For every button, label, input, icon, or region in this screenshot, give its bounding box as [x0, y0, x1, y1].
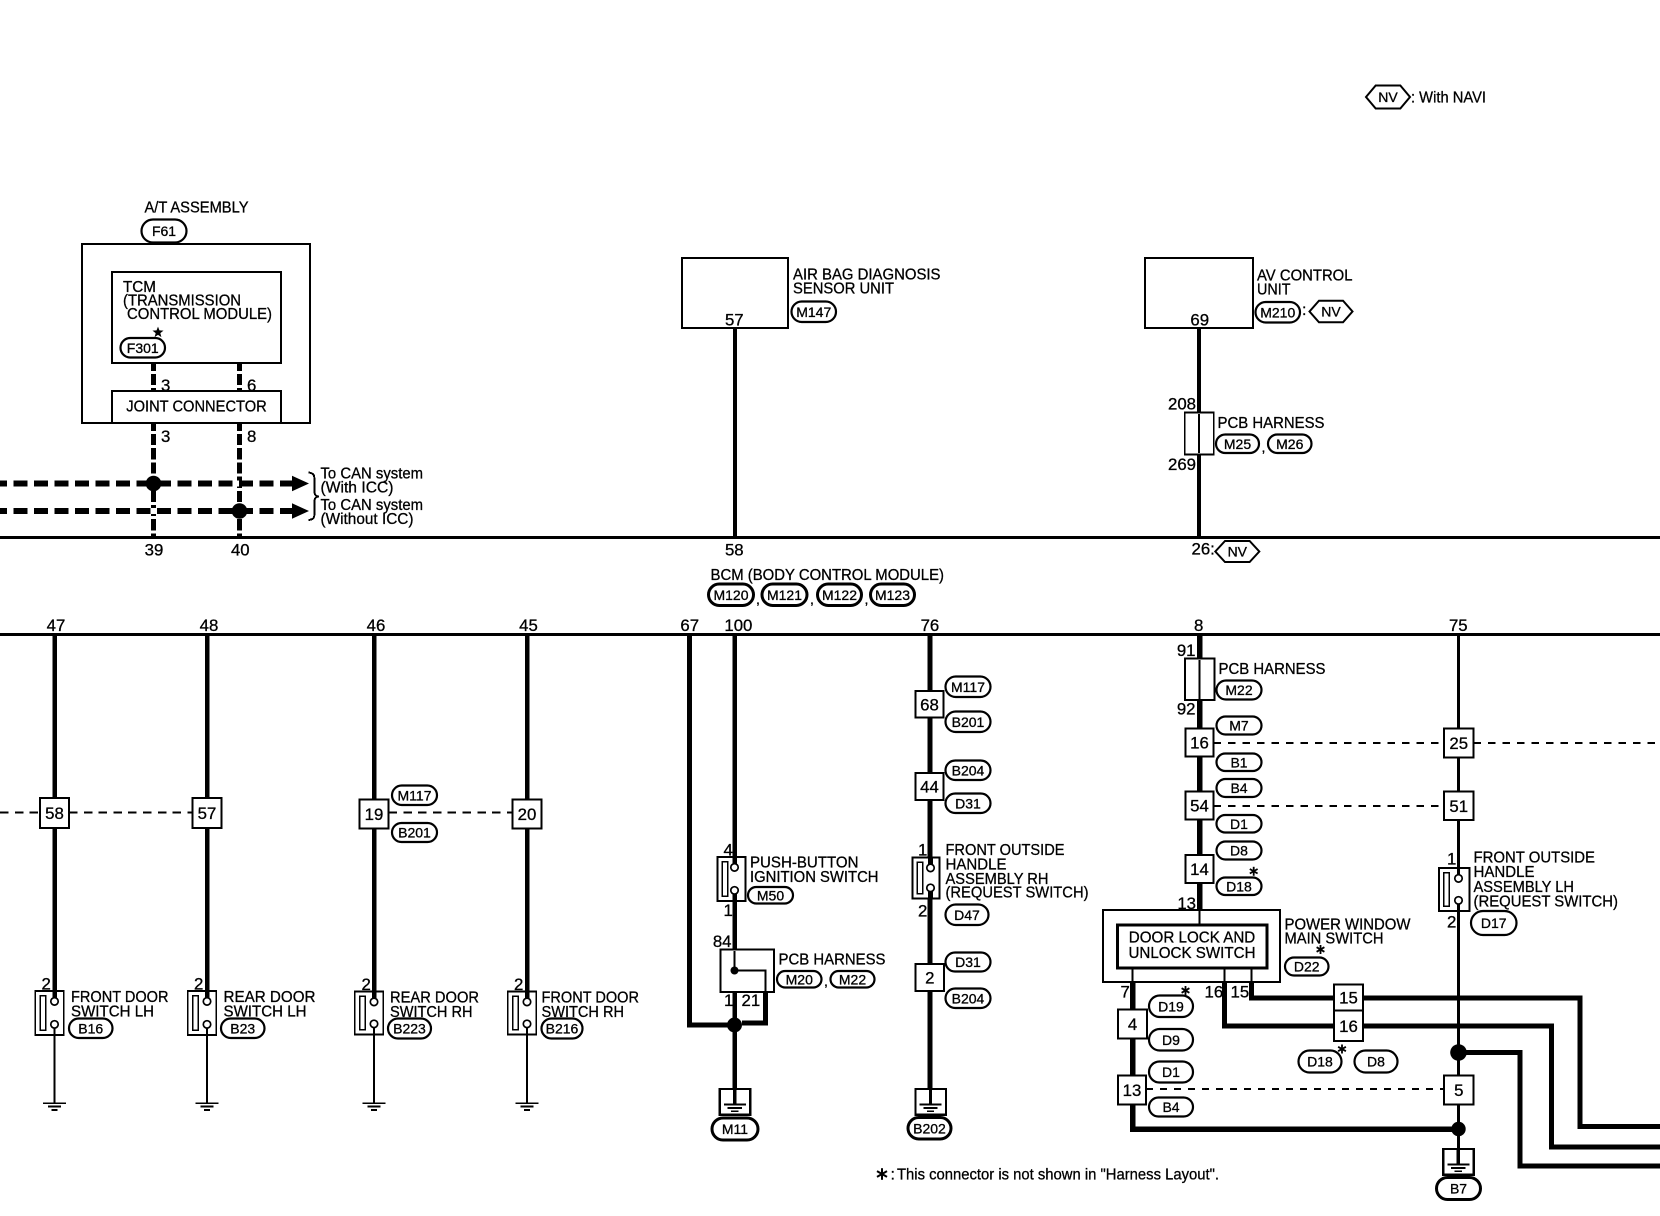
PCB harness joint box M20/M22 [721, 950, 775, 993]
wire switch LH to ground [54, 1035, 56, 1103]
svg-text:B223: B223 [393, 1021, 426, 1037]
svg-text:UNIT: UNIT [1257, 281, 1291, 299]
star mark at D18 lower [1338, 1045, 1346, 1054]
svg-text:51: 51 [1449, 797, 1468, 816]
connector PUSH-BUTTON IGNITION SWITCH [718, 857, 746, 901]
wire request switch LH down [1457, 911, 1460, 1076]
connector FRONT DOOR SWITCH RH [508, 992, 537, 1035]
wire TCM pin 6 to joint connector (CAN) [237, 363, 242, 391]
connector F301 [121, 338, 166, 358]
svg-text:M7: M7 [1229, 718, 1249, 734]
wire box 15 right to edge [1363, 998, 1660, 1126]
svg-text:2: 2 [918, 902, 927, 921]
inline connector box 57 [193, 798, 222, 828]
svg-text:3: 3 [161, 427, 170, 446]
svg-text:CONTROL MODULE): CONTROL MODULE) [127, 305, 272, 323]
svg-text:F61: F61 [152, 223, 176, 239]
connector M117 oval [946, 677, 991, 698]
connector D18 oval lower [1299, 1051, 1342, 1073]
svg-text:D22: D22 [1294, 959, 1320, 975]
svg-text:SENSOR UNIT: SENSOR UNIT [793, 280, 894, 298]
wire inside door lock box [1199, 910, 1201, 925]
wire switch to ground [373, 1035, 375, 1104]
wire CAN bus horizontal (With ICC) [0, 480, 293, 486]
svg-text:PCB HARNESS: PCB HARNESS [1219, 660, 1326, 678]
svg-text:2: 2 [925, 969, 934, 988]
inline connector box 2 [916, 964, 945, 991]
ground M11 boxed [720, 1089, 751, 1115]
inline connector box 58 [40, 798, 69, 828]
svg-text:B204: B204 [952, 762, 985, 778]
junction dot ground node [727, 1018, 742, 1033]
svg-text:75: 75 [1449, 616, 1468, 635]
inline connector box 25 [1444, 729, 1474, 758]
inline connector box 16 [1186, 729, 1214, 757]
svg-text:16: 16 [1205, 983, 1224, 1002]
wire door lock pin 16 to box 16 [1225, 982, 1335, 1026]
inline connector box 5 [1444, 1076, 1474, 1105]
inline connector box 20 [513, 800, 542, 829]
wire PCB pin 1 to junction [732, 992, 737, 1025]
svg-text:M121: M121 [767, 587, 802, 603]
svg-text:This connector is not shown in: This connector is not shown in "Harness … [897, 1166, 1219, 1184]
svg-text:B4: B4 [1230, 780, 1247, 796]
svg-text:76: 76 [921, 616, 940, 635]
A/T assembly outer box [82, 244, 310, 423]
connector D1 oval lower [1149, 1062, 1193, 1083]
svg-text:M20: M20 [786, 971, 813, 987]
svg-text:2: 2 [362, 975, 371, 994]
svg-text:57: 57 [198, 804, 217, 823]
inline connector box 68 [916, 691, 944, 718]
svg-text:PCB HARNESS: PCB HARNESS [1218, 414, 1325, 432]
wire BCM 75 down [1457, 635, 1460, 729]
wire BCM 76 down [928, 635, 933, 691]
svg-text:26:: 26: [1192, 540, 1215, 559]
svg-text:MAIN SWITCH: MAIN SWITCH [1285, 930, 1384, 948]
inline connector box 4 [1118, 1010, 1147, 1039]
PCB harness inline connector M22 [1185, 659, 1215, 701]
svg-text:D18: D18 [1307, 1054, 1333, 1070]
DOOR LOCK AND UNLOCK SWITCH inner box [1118, 925, 1268, 968]
wire switch to ground [526, 1035, 528, 1104]
wire box 2 to ground B202 [928, 991, 933, 1089]
svg-text:M123: M123 [875, 587, 910, 603]
wire CAN-L vertical to BCM pin 39 [151, 423, 156, 538]
legend NV symbol: With NAVI [1366, 86, 1410, 109]
wire switch to ground [206, 1035, 208, 1103]
ground front door switch LH [43, 1102, 66, 1104]
arrowhead CAN With ICC [292, 476, 309, 491]
BCM bottom edge line [0, 633, 1660, 636]
svg-text:M117: M117 [951, 679, 985, 695]
svg-text:D8: D8 [1367, 1054, 1385, 1070]
svg-text:(REQUEST SWITCH): (REQUEST SWITCH) [1474, 893, 1619, 911]
svg-text:15: 15 [1231, 983, 1250, 1002]
svg-text:48: 48 [200, 616, 219, 635]
connector B216 [542, 1019, 583, 1039]
svg-text:B201: B201 [398, 825, 431, 841]
svg-text:M50: M50 [757, 887, 784, 903]
svg-text:39: 39 [145, 541, 164, 560]
connector B201 oval (row) [392, 823, 437, 842]
junction dot CAN pin40 [232, 503, 248, 519]
wire 54 to 14 [1197, 820, 1203, 856]
svg-text:IGNITION SWITCH: IGNITION SWITCH [750, 868, 879, 886]
inline connector box 16 (pair) [1334, 1011, 1363, 1042]
inline connector box 13 [1118, 1076, 1146, 1105]
NV hexagon at pin 26 [1215, 541, 1259, 562]
svg-text:2: 2 [514, 975, 523, 994]
label To CAN system (Without ICC) [321, 496, 424, 528]
svg-text:47: 47 [47, 616, 66, 635]
svg-text:19: 19 [365, 805, 384, 824]
wire BCM 48 to rear door switch LH [205, 635, 210, 991]
svg-text:7: 7 [1121, 983, 1130, 1002]
wire PCB pin 21 to junction [742, 992, 766, 1023]
connector D18 oval [1217, 878, 1262, 896]
connector B204 oval [946, 761, 991, 781]
svg-text:84: 84 [713, 932, 732, 951]
svg-text:54: 54 [1190, 797, 1209, 816]
footnote: connector not shown in Harness Layout [877, 1166, 1219, 1184]
wire door lock pin 7 down [1130, 982, 1136, 1010]
svg-text:M22: M22 [839, 971, 866, 987]
svg-text:269: 269 [1168, 455, 1196, 474]
svg-text:M25: M25 [1224, 436, 1251, 452]
svg-text:57: 57 [725, 311, 744, 330]
dashed row 16-25 [1214, 742, 1445, 744]
wire airbag 57 to BCM 58 [733, 328, 737, 538]
star mark on F301 [152, 327, 163, 337]
label REAR DOOR SWITCH LH [224, 988, 316, 1021]
connector D19 oval [1149, 996, 1193, 1018]
wire 13 down right to junction at B7 [1133, 1105, 1453, 1130]
ground B7 boxed [1443, 1149, 1474, 1175]
connector M210 with NV [1256, 301, 1307, 323]
star mark at D18 [1250, 867, 1258, 876]
connector M11 [712, 1118, 758, 1140]
connector M7 oval [1217, 717, 1262, 735]
svg-text:JOINT CONNECTOR: JOINT CONNECTOR [126, 398, 267, 416]
svg-text::: : [891, 1166, 895, 1184]
svg-text:2: 2 [194, 975, 203, 994]
wire AV 69 to PCB harness [1197, 328, 1201, 413]
svg-text:B16: B16 [78, 1020, 103, 1036]
connector B201 oval [946, 712, 991, 733]
svg-text:M120: M120 [713, 587, 748, 603]
connector REAR DOOR SWITCH RH [355, 992, 384, 1035]
svg-text:8: 8 [1194, 616, 1203, 635]
svg-text:D1: D1 [1162, 1064, 1180, 1080]
svg-text:M26: M26 [1276, 436, 1303, 452]
svg-text:20: 20 [518, 805, 537, 824]
junction dot and wire right to edge [1450, 1044, 1467, 1061]
svg-text:208: 208 [1168, 395, 1196, 414]
star mark at D19 [1182, 986, 1190, 995]
connector B1 oval [1217, 754, 1262, 772]
wire 68 to 44 [928, 718, 933, 774]
svg-text:PCB HARNESS: PCB HARNESS [779, 951, 886, 969]
NV hexagon at M210 [1310, 301, 1353, 323]
connector D22 [1285, 958, 1329, 976]
connector M120 [709, 584, 754, 606]
svg-text:D9: D9 [1162, 1032, 1180, 1048]
svg-text:D1: D1 [1230, 816, 1248, 832]
svg-text:B204: B204 [952, 990, 985, 1006]
svg-text:,: , [810, 591, 814, 607]
connector FRONT OUTSIDE HANDLE ASSEMBLY LH [1439, 868, 1470, 911]
svg-text:(Without ICC): (Without ICC) [321, 510, 414, 528]
connector D17 [1471, 911, 1517, 935]
connector B16 [69, 1019, 113, 1039]
svg-text:F301: F301 [127, 340, 159, 356]
svg-text:21: 21 [742, 991, 761, 1010]
dashed row 54-51 [1214, 805, 1445, 807]
wire ignition switch to PCB harness [732, 901, 737, 950]
wire 51 to request switch LH [1457, 820, 1460, 868]
svg-text:UNLOCK SWITCH: UNLOCK SWITCH [1129, 944, 1256, 962]
svg-text:D31: D31 [955, 795, 981, 811]
junction dot CAN pin39 [146, 476, 162, 492]
svg-text:D17: D17 [1481, 915, 1507, 931]
wire BCM 46 to rear door switch RH [372, 635, 377, 992]
connector B4 oval lower [1149, 1098, 1193, 1117]
wire box 16 right to edge [1363, 1026, 1660, 1147]
inline connector box 54 [1186, 792, 1214, 820]
svg-text:B7: B7 [1450, 1181, 1467, 1197]
label To CAN system (With ICC) [321, 465, 424, 497]
connector M22 oval [1217, 681, 1262, 700]
wire request switch RH to box 2 [928, 899, 933, 965]
connector B7 [1437, 1178, 1481, 1200]
connector D1 oval [1217, 815, 1262, 833]
label DOOR LOCK AND UNLOCK SWITCH [1129, 929, 1256, 963]
svg-text:1: 1 [1447, 850, 1456, 869]
label REAR DOOR SWITCH RH [390, 989, 479, 1022]
svg-text::: : [1302, 301, 1306, 319]
pin labels above BCM bottom edge [47, 616, 1468, 635]
svg-text:M117: M117 [398, 787, 432, 803]
svg-text:40: 40 [231, 541, 250, 560]
svg-text:B23: B23 [230, 1020, 255, 1036]
connector B204 oval lower [946, 989, 991, 1009]
svg-text:69: 69 [1190, 311, 1209, 330]
label FRONT DOOR SWITCH RH [542, 989, 640, 1022]
connector B223 [388, 1019, 431, 1039]
wire 25 to 51 [1457, 758, 1460, 792]
svg-text:M147: M147 [796, 304, 831, 320]
wire 4 to 13 [1130, 1039, 1136, 1076]
ground rear door switch RH [363, 1102, 386, 1104]
svg-text:NV: NV [1321, 304, 1341, 320]
connector M121 [762, 584, 807, 606]
star mark at D22 [1317, 945, 1325, 954]
wire BCM 47 to front door switch LH [52, 635, 57, 991]
svg-text:D31: D31 [955, 954, 981, 970]
brace for CAN system labels [309, 473, 320, 521]
svg-text:45: 45 [519, 616, 538, 635]
svg-text:4: 4 [1128, 1015, 1137, 1034]
label POWER WINDOW MAIN SWITCH [1285, 916, 1412, 948]
inline connector box 51 [1444, 792, 1474, 821]
connector D8 oval lower [1355, 1051, 1398, 1073]
unit DOOR LOCK AND UNLOCK SWITCH outer box [1103, 910, 1280, 982]
svg-text:2: 2 [42, 975, 51, 994]
connector F61 [142, 220, 187, 243]
svg-text:46: 46 [367, 616, 386, 635]
svg-text:58: 58 [725, 541, 744, 560]
svg-text:D19: D19 [1158, 998, 1184, 1014]
pin stub lines inside door lock box [1132, 968, 1134, 982]
joint connector box [112, 391, 281, 423]
unit AV CONTROL UNIT box [1145, 258, 1253, 328]
svg-text:D47: D47 [954, 907, 980, 923]
svg-text:100: 100 [724, 616, 752, 635]
svg-text:5: 5 [1454, 1081, 1463, 1100]
wire BCM 45 to front door switch RH [525, 635, 530, 992]
PCB harness inline connector M25/M26 [1185, 413, 1214, 455]
svg-text:M11: M11 [722, 1121, 748, 1137]
wire BCM 67 down and right to ground junction [690, 635, 732, 1025]
svg-text:44: 44 [920, 778, 939, 797]
svg-text:1: 1 [724, 991, 733, 1010]
wire 92 to box 16 [1197, 700, 1203, 729]
svg-text:14: 14 [1190, 860, 1209, 879]
wire CAN bus horizontal (Without ICC) [0, 508, 293, 514]
arrowhead CAN Without ICC [292, 503, 309, 518]
svg-text:(REQUEST SWITCH): (REQUEST SWITCH) [946, 884, 1089, 902]
connector D47 [946, 905, 989, 926]
svg-text:B201: B201 [952, 714, 985, 730]
wire 16 to 54 [1197, 757, 1203, 792]
TCM box [112, 272, 281, 363]
svg-text:67: 67 [680, 616, 699, 635]
label PUSH-BUTTON IGNITION SWITCH [750, 854, 879, 887]
svg-text:D18: D18 [1226, 878, 1252, 894]
svg-text:M22: M22 [1225, 682, 1252, 698]
ground rear door switch LH [196, 1102, 219, 1104]
svg-text:,: , [756, 591, 760, 607]
svg-text:BCM (BODY CONTROL MODULE): BCM (BODY CONTROL MODULE) [711, 566, 945, 584]
dashed row 25 to right edge [1474, 742, 1660, 744]
svg-text:NV: NV [1378, 89, 1398, 105]
wire door lock pin 15 to box 15 [1252, 982, 1335, 998]
svg-text:A/T ASSEMBLY: A/T ASSEMBLY [145, 199, 249, 217]
connector FRONT DOOR SWITCH LH [35, 991, 64, 1035]
svg-text:: With NAVI: : With NAVI [1411, 89, 1486, 107]
svg-text:13: 13 [1123, 1081, 1142, 1100]
svg-text:25: 25 [1449, 734, 1468, 753]
svg-text:1: 1 [724, 901, 733, 920]
wire PCB harness to BCM 26 [1197, 455, 1201, 538]
svg-text:B202: B202 [913, 1120, 946, 1136]
svg-text:68: 68 [920, 695, 939, 714]
junction dot inside PCB harness [731, 967, 739, 975]
wire junction to ground M11 [732, 1025, 737, 1089]
svg-text:,: , [865, 591, 869, 607]
connector B202 [908, 1118, 951, 1140]
svg-text:16: 16 [1339, 1017, 1358, 1036]
inline connector box 19 [360, 800, 389, 829]
svg-text:(With ICC): (With ICC) [321, 479, 394, 497]
connector REAR DOOR SWITCH LH [188, 991, 217, 1035]
connector M123 [871, 584, 915, 606]
ground front door switch RH [516, 1102, 539, 1104]
connector M50 [748, 887, 793, 904]
svg-text:M210: M210 [1260, 304, 1295, 320]
label AIR BAG DIAGNOSIS SENSOR UNIT [793, 266, 941, 298]
connector B4 oval [1217, 779, 1262, 797]
svg-text:M122: M122 [822, 587, 857, 603]
label FRONT OUTSIDE HANDLE ASSEMBLY RH (REQUEST SWITCH) [946, 841, 1089, 902]
dashed connector row 58/57/19/20 [0, 812, 513, 814]
svg-text:,: , [824, 973, 828, 989]
inline connector box 14 [1186, 855, 1214, 883]
connector D9 oval [1149, 1029, 1193, 1051]
connector D8 oval [1217, 842, 1262, 860]
wire BCM 8 down [1197, 635, 1203, 659]
svg-text:B216: B216 [546, 1021, 579, 1037]
connector M25 [1216, 435, 1259, 454]
connector M20 [777, 971, 822, 988]
connector M117 oval (row) [392, 786, 437, 806]
svg-text:16: 16 [1190, 734, 1209, 753]
connector B23 [221, 1019, 265, 1039]
wire 5 to ground B7 [1457, 1105, 1460, 1150]
connector M26 [1268, 435, 1312, 454]
connector M22 [831, 971, 875, 988]
ground B202 boxed [916, 1089, 947, 1115]
wire CAN-H vertical to BCM pin 40 [237, 423, 242, 538]
svg-text:,: , [1262, 439, 1266, 455]
inline connector box 44 [916, 773, 944, 800]
connector M147 [792, 302, 837, 323]
BCM top edge line [0, 536, 1660, 539]
connector D31 oval [946, 794, 991, 814]
svg-text:92: 92 [1177, 700, 1196, 719]
label FRONT OUTSIDE HANDLE ASSEMBLY LH (REQUEST SWITCH) [1474, 849, 1619, 911]
wire 14 to door lock switch [1197, 883, 1203, 910]
connector M122 [818, 584, 862, 606]
inline connector box 15 [1334, 985, 1363, 1011]
svg-text:B1: B1 [1230, 754, 1247, 770]
label FRONT DOOR SWITCH LH [71, 988, 169, 1021]
svg-text:D8: D8 [1230, 843, 1248, 859]
wire BCM 100 to push-button ignition switch [732, 635, 737, 857]
unit AIR BAG DIAGNOSIS SENSOR UNIT box [682, 258, 788, 328]
svg-text:58: 58 [45, 804, 64, 823]
connector FRONT OUTSIDE HANDLE ASSEMBLY RH [913, 858, 940, 899]
wire 44 to request switch RH [928, 800, 933, 858]
junction dot at B7 [1451, 1122, 1465, 1136]
dashed row 13-5 [1146, 1088, 1444, 1090]
svg-text:2: 2 [1447, 913, 1456, 932]
svg-text:NV: NV [1228, 544, 1248, 560]
svg-text:15: 15 [1339, 989, 1358, 1008]
wire TCM pin 3 to joint connector (CAN) [151, 363, 156, 391]
label TCM (TRANSMISSION CONTROL MODULE) [123, 278, 272, 323]
svg-text:91: 91 [1177, 641, 1196, 660]
connector D31 oval lower [946, 953, 991, 972]
svg-text:8: 8 [247, 427, 256, 446]
label AV CONTROL UNIT [1257, 267, 1353, 299]
svg-text:B4: B4 [1162, 1099, 1179, 1115]
